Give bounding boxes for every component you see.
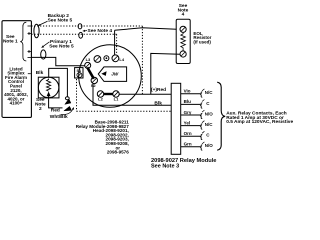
screw S1	[85, 62, 91, 68]
wire contact Blu	[181, 103, 201, 105]
wire loop small backup1	[78, 24, 82, 29]
contact arm tick	[202, 110, 204, 112]
svg-text:Blk: Blk	[36, 70, 44, 76]
screw EOL bottom	[180, 51, 186, 57]
terminal backup minus	[28, 25, 32, 27]
screw L2	[97, 91, 103, 97]
wire L4 riser solid	[114, 30, 116, 54]
arrow wht/blk leader	[61, 109, 74, 115]
svg-text:L1: L1	[114, 97, 119, 102]
svg-text:S2: S2	[91, 83, 97, 88]
svg-text:(If used): (If used)	[193, 40, 211, 45]
wire primary loop	[41, 50, 46, 59]
svg-text:{: {	[200, 112, 203, 119]
contact arm tick	[202, 131, 204, 133]
wire backup negative drop to L4 dashed	[116, 34, 118, 54]
wire S2 to relay module black	[93, 84, 171, 106]
svg-text:Blk: Blk	[154, 101, 162, 107]
svg-text:Note 1: Note 1	[3, 38, 18, 44]
contact arm tick	[202, 121, 204, 123]
node wire nut entry loop	[65, 97, 69, 100]
svg-text:4100+: 4100+	[10, 101, 23, 106]
svg-text:Gry: Gry	[184, 110, 192, 115]
svg-text:L4: L4	[119, 57, 124, 62]
wire backup positive dashed	[31, 25, 142, 27]
svg-text:N/O: N/O	[205, 111, 214, 116]
wire to EOL resistor	[115, 28, 177, 31]
terminal primary plus	[28, 50, 32, 53]
wire nut 2	[64, 106, 72, 111]
svg-text:See Note 3: See Note 3	[151, 163, 179, 169]
wire contact Orn	[181, 135, 201, 137]
wire red lead	[49, 96, 63, 108]
arrow see note 4 leader	[85, 30, 88, 32]
detector base circle	[79, 45, 142, 108]
svg-text:0.5 Amp at 120VAC, Resistive: 0.5 Amp at 120VAC, Resistive	[226, 119, 293, 125]
wire contact Grn	[181, 146, 201, 148]
svg-text:{: {	[200, 123, 203, 130]
svg-text:See Note 5: See Note 5	[49, 43, 74, 49]
brace panel terminals	[20, 22, 26, 61]
svg-text:N/C: N/C	[205, 122, 214, 127]
dashed bottom edge	[77, 110, 172, 112]
contact arm tick	[202, 89, 204, 91]
contact hooks	[200, 91, 203, 151]
brace aux contacts	[217, 82, 225, 150]
svg-text:4: 4	[182, 12, 185, 18]
svg-text:(+)Red: (+)Red	[151, 87, 166, 93]
wire primary positive to S1	[31, 57, 84, 65]
svg-text:L2: L2	[98, 97, 103, 102]
svg-text:Blu: Blu	[184, 99, 192, 104]
screw S2	[91, 77, 97, 83]
wire loop small backup2	[79, 32, 83, 38]
terminal primary minus	[28, 56, 32, 58]
screw EOL top	[180, 26, 186, 32]
wire EOL bottom return	[151, 53, 180, 94]
contact arm tick	[202, 100, 204, 102]
wire contact Gry	[181, 114, 201, 116]
svg-text:{: {	[200, 134, 203, 141]
wire contact Yel	[181, 125, 201, 127]
contact arm tick	[202, 142, 204, 144]
svg-text:Red: Red	[51, 108, 60, 114]
panel U1 Simplex fire alarm control panel box	[2, 21, 31, 118]
wire L1 to relay module red	[119, 93, 171, 95]
wire nut 1	[65, 99, 71, 105]
svg-text:L3: L3	[86, 57, 91, 62]
terminal backup plus	[28, 32, 32, 35]
resistor EOL zigzag	[181, 32, 186, 51]
svg-text:{: {	[200, 144, 203, 151]
svg-text:N/O: N/O	[205, 143, 214, 148]
screw S-box	[77, 73, 82, 78]
wire backup negative dashed	[31, 33, 116, 35]
terminal aux minus	[28, 73, 31, 75]
svg-text:See Note 5: See Note 5	[48, 18, 73, 24]
terminal S-box	[75, 68, 83, 78]
svg-text:{: {	[200, 91, 203, 98]
arrow supervisory relay bottom	[47, 92, 51, 97]
arrow primary leader	[43, 42, 50, 47]
svg-text:Grn: Grn	[184, 142, 192, 147]
arrow backup leader	[38, 21, 48, 26]
jumper wire JW thick bar	[87, 67, 94, 78]
jumper bar L2 L1	[104, 93, 113, 95]
screw L3	[94, 56, 101, 63]
label base head part numbers	[76, 120, 130, 155]
wire contact Vio	[181, 93, 201, 95]
supervisory relay See Note 2	[38, 77, 59, 98]
EOL resistor box	[176, 19, 190, 63]
resistor zigzag inside supervisory relay	[47, 79, 51, 92]
wire backup return dashed vertical	[141, 26, 143, 94]
svg-text:N/C: N/C	[205, 90, 214, 95]
svg-text:Yel: Yel	[184, 120, 191, 125]
screw L1	[113, 91, 119, 97]
screw L4	[112, 55, 119, 62]
dashed boundary relay base assembly	[77, 79, 172, 111]
svg-text:JW: JW	[111, 72, 119, 77]
svg-text:Orn: Orn	[184, 131, 192, 136]
svg-text:Vio: Vio	[184, 89, 191, 94]
svg-text:2098-9576: 2098-9576	[107, 150, 129, 155]
dashed notch vertical	[76, 79, 78, 111]
svg-text:{: {	[200, 102, 203, 109]
screw center pin	[104, 56, 109, 61]
callout JW banner	[98, 67, 126, 82]
arrow JW	[101, 71, 106, 76]
wire backup loop	[34, 24, 39, 38]
wire to supervisory relay	[49, 68, 68, 96]
label panel listing	[4, 66, 28, 105]
svg-text:2: 2	[39, 106, 42, 112]
svg-text:See Note 4: See Note 4	[88, 28, 113, 34]
relay module box	[171, 83, 181, 154]
